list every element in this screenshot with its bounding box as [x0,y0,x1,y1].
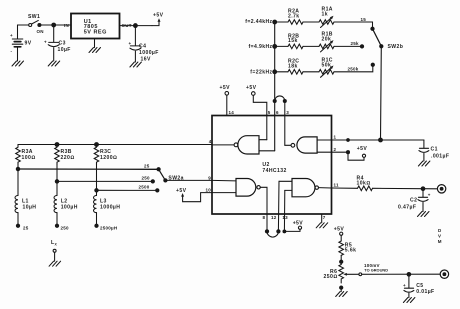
nand gate U2b (pins 5,6 out 4, mirrored) [234,136,275,154]
wire U1 OUT to +5V [120,25,153,27]
wire pin 13 to +5V [284,229,300,231]
junction C2 tap [421,187,425,191]
svg-text:25: 25 [23,226,29,231]
capacitor C2 0.47uF [398,189,431,212]
junction pin 8 [265,230,268,233]
switch SW1 [18,14,44,34]
switch SW2a lever and pole [159,169,184,182]
svg-text:9V: 9V [25,41,32,47]
svg-text:C3: C3 [59,41,66,47]
resistor R2B 15k [288,33,303,48]
svg-text:15k: 15k [288,38,298,44]
junction arc right [283,100,286,103]
+5V terminal (pin 2) [357,146,368,157]
wire R6 to ground [340,288,342,292]
resistor R4 10k ohm [332,176,373,191]
terminal small circle on wiper wire [359,273,362,276]
junction SW2b node [379,138,383,142]
wire gate U2c output to pin 8 [260,187,267,214]
wire R6 wiper to output terminal B [347,273,441,275]
SW2b throw 2 contact [360,45,363,48]
junction row 25 [16,167,19,170]
trimmer R1A 1k [319,7,334,28]
svg-text:10kΩ: 10kΩ [357,180,371,186]
svg-text:+: + [403,283,406,288]
ground (C4) [130,62,142,67]
junction C5 tap [407,273,411,277]
wire +5V to pin 5 [253,95,266,139]
svg-text:+5V: +5V [220,85,231,91]
wire row3 mid [303,71,319,73]
wire row2 mid [303,45,319,47]
ground (C1) [418,161,430,166]
wire gate U2d output pin 11 [319,187,332,189]
SW2a throw 1 contact [157,168,160,171]
wire feedback bus (pin 6 to R2 rows) [274,22,276,151]
+5V terminal (pin 14) [220,85,231,95]
junction row 250 [55,180,58,183]
svg-text:10: 10 [205,188,211,193]
svg-text:2: 2 [334,147,337,152]
+5V terminal (pin 5) [246,85,257,95]
junction R6 bottom [340,286,343,289]
node DVM label [438,228,442,244]
svg-text:ON: ON [37,29,44,34]
svg-text:+5V: +5V [176,188,187,194]
resistor R3A 100 ohm [16,145,36,166]
svg-text:D: D [438,228,442,233]
svg-text:50k: 50k [322,62,332,68]
+5V terminal (R5 top) [334,227,345,236]
svg-text:L3: L3 [100,199,107,205]
svg-text:+: + [129,41,132,46]
switch SW2b lever and pole [373,29,404,50]
svg-text:20k: 20k [322,36,332,42]
svg-text:-: - [11,49,13,54]
terminal output A [437,185,445,193]
svg-text:+: + [44,40,47,45]
svg-text:1000µF: 1000µF [139,50,159,56]
svg-text:13: 13 [282,215,288,220]
svg-text:11: 11 [334,183,340,188]
SW2b throw 3 contact [371,63,374,66]
trimmer R1B 20k [319,32,334,52]
junction R3C top [95,143,99,147]
svg-text:L2: L2 [61,199,68,205]
wire R3B to row 250 [56,163,58,196]
ground (Lx) [49,261,61,266]
svg-text:+5V: +5V [334,227,345,233]
wire L3 to terminal [96,213,98,226]
wire row 250 to SW2a throw 2 [57,180,152,182]
wire row1 left [275,21,288,23]
svg-text:V: V [438,234,441,239]
svg-text:25k: 25k [351,41,360,46]
svg-text:5V REG: 5V REG [84,30,107,36]
resistor R3C 1200 ohm [94,145,117,166]
wire row 2500 to SW2a throw 3 [97,189,157,191]
svg-text:f=2.44kHz: f=2.44kHz [245,19,272,25]
svg-text:f=22kHz: f=22kHz [250,70,272,76]
svg-text:.001µF: .001µF [431,153,449,159]
junction arc left [273,100,276,103]
IC U2 74HC132 body [212,116,332,215]
svg-text:12: 12 [271,215,277,220]
terminal L3 (2500uH) [95,224,98,227]
junction R3B top [55,143,59,147]
voltage regulator U1 7805 [64,14,132,48]
svg-text:1k: 1k [322,11,328,17]
svg-text:0.47µF: 0.47µF [398,205,416,211]
nand gate U2c (pins 9,10 out 8) [212,179,260,197]
capacitor C1 .001uF [419,140,449,161]
wire pin 2 to +5V [332,152,365,160]
wire row1 mid [303,21,319,23]
wire SW1 to U1 IN [39,24,71,26]
svg-text:5.6k: 5.6k [345,248,357,254]
svg-text:14: 14 [229,110,235,115]
+5V supply arrow (pin 10) [176,188,187,197]
wire pin 13 vertical [283,190,285,231]
SW2b throw 1 contact [371,27,374,30]
wire pin 1 to C1/SW2b node [332,139,424,141]
inductor L3 1000uH [94,196,121,213]
terminal L1 (25) [16,224,19,227]
svg-text:16V: 16V [141,57,151,63]
junction pin2 [347,151,350,154]
svg-text:9: 9 [208,175,211,180]
wire R3A to row 25 [17,163,19,196]
svg-text:2500: 2500 [139,185,150,190]
wire R4 to output terminal A [373,187,438,190]
resistor R5 5.6k [339,235,356,264]
capacitor C5 0.01uF [403,274,435,297]
svg-text:5: 5 [268,110,271,115]
nand gate U2a (pins 1,2 out 3, mirrored) [285,137,332,153]
svg-text:1: 1 [334,135,337,140]
inductor L1 10uH [15,196,36,213]
node (C3 tap) [52,23,56,27]
wire row2 left [275,45,288,47]
junction pin1 small [347,139,350,142]
svg-text:220Ω: 220Ω [61,155,75,161]
capacitor C4 1000uF 16V [129,26,159,63]
junction bus row2 [273,45,277,49]
SW2a throw 3 contact [156,189,159,192]
inductor L2 100uH [54,196,78,213]
junction pin 12 [277,230,280,233]
nand gate U2d (pins 12,13 out 11) [279,179,318,197]
potentiometer R6 250 ohm [324,265,347,284]
+5V supply arrow (top left) [153,13,164,22]
terminal output B [440,270,448,278]
svg-text:2.7k: 2.7k [288,13,300,19]
svg-text:IN: IN [64,23,69,28]
svg-text:250Ω: 250Ω [324,274,338,280]
svg-text:15: 15 [361,17,367,22]
svg-text:74HC132: 74HC132 [262,168,286,174]
svg-text:TO GROUND: TO GROUND [364,268,388,273]
ground (battery) [12,61,24,66]
svg-text:100Ω: 100Ω [22,155,36,161]
wire SW2a pole to pin 9 [165,179,212,181]
svg-text:SW1: SW1 [28,14,40,20]
svg-text:8: 8 [263,215,266,220]
wire row3 to SW2b throw 3 [334,66,373,72]
svg-text:+: + [428,193,431,198]
svg-text:7: 7 [323,215,326,220]
svg-text:4: 4 [209,139,212,144]
svg-text:250: 250 [142,176,151,181]
ground (C5) [403,298,415,303]
ground (C2) [418,212,430,217]
junction pin 13 [283,230,286,233]
wire row 25 to SW2a throw 1 [18,168,159,170]
svg-text:+5V: +5V [246,85,257,91]
battery B1 9V [10,25,32,61]
wire row3 left [275,71,288,73]
wire pin 14 [226,95,228,115]
svg-text:0.01µF: 0.01µF [416,289,434,295]
svg-text:10µH: 10µH [23,205,37,211]
svg-text:6: 6 [276,110,279,115]
svg-text:SW2b: SW2b [388,44,404,50]
svg-text:C4: C4 [139,44,146,50]
wire hop arc (pin 3 to pin 6 bus) [275,96,285,101]
capacitor C3 10uF [44,25,71,61]
node (C4 tap) [134,24,138,28]
wire +5V to pin 10 [183,193,212,202]
svg-text:1000µH: 1000µH [100,205,120,211]
wire row2 to SW2b throw 2 [334,45,361,47]
svg-text:+5V: +5V [153,13,164,19]
junction bus row1 [273,20,277,24]
wire SW2b pole down to pin1 node [380,46,383,140]
wire pin 12 vertical [277,181,280,231]
svg-text:L1: L1 [22,199,29,205]
svg-text:18k: 18k [288,64,298,70]
svg-text:3: 3 [286,110,289,115]
+5V terminal (pin 13) [293,221,304,230]
ground (R6) [336,292,348,297]
junction row 2500 [95,189,98,192]
node Lx test terminal [51,240,58,261]
wire R3C to row 2500 [96,163,98,196]
wire riser to +5V arrow [152,21,159,26]
resistor R2A 2.7k [288,9,303,25]
ground (U1) [89,48,101,53]
wire pin 3 vertical [284,101,286,145]
wire U-loop pin 8 to pin 12 [267,231,278,237]
resistor R2C 18k [288,59,303,74]
wire L2 to terminal [56,213,58,226]
wire L1 to terminal [17,213,19,226]
svg-text:f=4.9kHz: f=4.9kHz [248,44,272,50]
svg-text:25: 25 [144,163,150,168]
svg-text:+: + [10,33,13,38]
wire pin 4 out to R3 bus [212,144,234,146]
svg-text:10µF: 10µF [58,47,71,53]
wire pin 8 below [266,214,268,231]
svg-text:250k: 250k [348,66,359,71]
wire row1 to SW2b throw 1 [334,22,373,28]
SW2a throw 2 contact [151,180,154,183]
svg-text:250: 250 [61,226,70,231]
trimmer R1C 50k [319,58,334,78]
svg-text:1200Ω: 1200Ω [100,155,117,161]
svg-text:+5V: +5V [357,146,368,152]
svg-text:C2: C2 [410,197,417,203]
svg-text:M: M [438,239,442,244]
svg-text:100µH: 100µH [61,205,78,211]
ground (pin 7) [316,223,328,228]
ground (C3) [48,61,60,66]
junction R5/R6 [340,260,343,263]
resistor R3B 220 ohm [55,145,75,166]
junction bus row3 [273,70,277,74]
terminal L2 (250) [55,224,58,227]
svg-text:C1: C1 [431,147,438,153]
svg-text:2500µH: 2500µH [100,226,117,231]
svg-text:+5V: +5V [293,221,304,227]
wire pin 7 to ground [321,214,323,223]
